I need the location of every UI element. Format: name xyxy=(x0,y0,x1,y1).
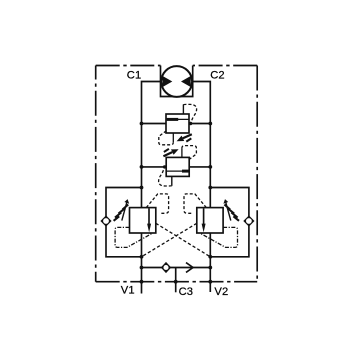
svg-text:C3: C3 xyxy=(179,286,194,298)
motor M1 xyxy=(161,66,192,97)
wire relief rail upper xyxy=(142,123,211,125)
counterbalance valve CB2 xyxy=(142,194,240,257)
enclosure border left xyxy=(95,66,97,282)
enclosure border top-left xyxy=(96,65,161,67)
wire C2 rail xyxy=(193,82,211,268)
wire port C3 stub xyxy=(175,268,177,293)
wire motor notch xyxy=(161,66,193,97)
svg-text:V1: V1 xyxy=(121,285,135,297)
junction dots xyxy=(140,122,213,284)
svg-text:C1: C1 xyxy=(127,69,142,81)
relief valve RV2 xyxy=(159,146,197,186)
svg-text:C2: C2 xyxy=(210,69,225,81)
counterbalance valve CB1 xyxy=(114,194,211,257)
wire relief rail lower xyxy=(142,166,211,168)
flow arrow A1 xyxy=(186,263,193,273)
wire port V1 stub xyxy=(141,268,143,294)
wire right check loop xyxy=(210,188,249,257)
enclosure border top-right xyxy=(193,65,258,67)
check valve CV1 xyxy=(100,215,111,226)
check valve CV2 xyxy=(243,215,254,226)
enclosure border bottom xyxy=(96,281,258,283)
wire main bottom line xyxy=(142,267,211,269)
check valve CV3 xyxy=(161,262,171,273)
svg-text:V2: V2 xyxy=(214,286,228,298)
wire C1 rail xyxy=(142,82,162,268)
wire port V2 stub xyxy=(209,268,211,293)
enclosure border right xyxy=(256,66,258,282)
relief valve RV1 xyxy=(159,104,197,144)
wire left check loop xyxy=(106,188,142,257)
